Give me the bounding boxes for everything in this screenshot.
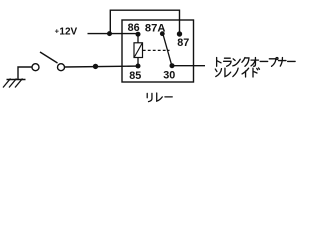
label リレー (relay) [147,93,172,102]
node pin 87A [160,31,165,36]
ground symbol [7,79,26,81]
wire pin 30 to solenoid [172,65,205,67]
relay coil K1 (rectangle with diagonal) [134,43,143,58]
node junction on +12V wire [107,31,112,36]
node junction dot on wire [93,64,98,69]
svg-text:87: 87 [177,37,189,49]
dashed mechanical link coil to blade [143,49,170,51]
node pin 30 [170,63,175,68]
svg-text:85: 85 [129,70,141,82]
switch S1 blade (open) [40,52,58,63]
wire coil to pin 85 [137,58,139,67]
label トランクオープナー (trunk opener) line 1 [217,58,295,67]
node pin 85 [136,64,141,69]
switch blade 87A to 30 [163,35,171,64]
wire +12V to pin 86 [88,33,139,35]
svg-text:30: 30 [163,70,175,82]
label ソレノイド (solenoid) line 2 [215,68,259,77]
wire switch to pin 85 [65,65,138,68]
wire loop from +12V junction to pin 87 [110,10,179,34]
node pin 87 terminal dot [177,31,182,36]
wire pin86 to coil [137,34,139,43]
relay box outline [122,20,194,82]
wire switch to ground [18,67,32,80]
switch S1 terminal circles [32,64,39,71]
node pin 86 [136,32,141,37]
